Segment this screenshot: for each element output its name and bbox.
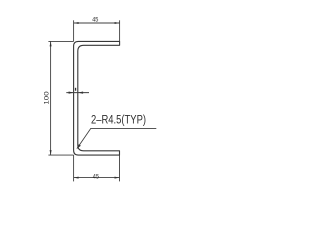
left dimension line xyxy=(50,41,52,155)
top dimension arrowhead left xyxy=(74,22,79,24)
left dimension extension line bottom xyxy=(48,154,73,156)
top dimension extension line right xyxy=(119,20,121,41)
leader arrowhead xyxy=(77,144,81,148)
top dimension arrowhead right xyxy=(115,22,120,24)
left dimension arrowhead bottom xyxy=(50,150,52,155)
bottom dimension line xyxy=(74,177,120,179)
leader line for fillet radius xyxy=(77,128,156,148)
svg-text:45: 45 xyxy=(92,17,98,24)
bottom dimension arrowhead left xyxy=(74,177,79,179)
left dimension arrowhead top xyxy=(50,41,52,46)
channel profile outline xyxy=(74,41,120,155)
thickness value tick xyxy=(75,88,76,91)
bottom dimension extension line left xyxy=(73,155,75,181)
bottom dimension extension line right xyxy=(119,155,121,181)
svg-text:100: 100 xyxy=(44,91,51,105)
thickness arrowhead left (points right at web outer face) xyxy=(69,92,74,94)
thickness arrowhead right (points left at web inner face) xyxy=(78,92,83,94)
top dimension line xyxy=(74,22,120,24)
svg-text:45: 45 xyxy=(93,173,99,180)
left dimension extension line top xyxy=(48,40,73,42)
bottom dimension arrowhead right xyxy=(115,177,120,179)
svg-text:2–R4.5(TYP): 2–R4.5(TYP) xyxy=(91,114,146,126)
thickness dimension line xyxy=(66,92,89,94)
top dimension extension line left xyxy=(73,20,75,41)
